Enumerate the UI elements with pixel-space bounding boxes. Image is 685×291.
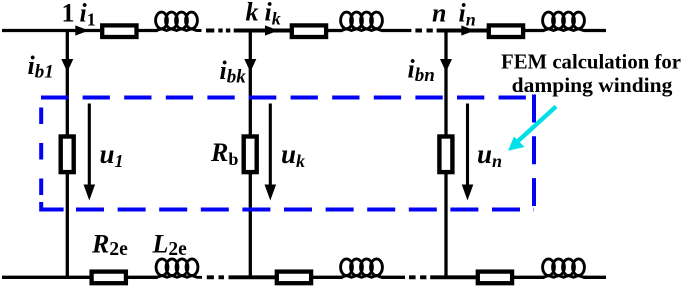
inductor L2e (section k) xyxy=(337,259,387,277)
inductor L2e (section 1) xyxy=(152,259,202,277)
current arrow in xyxy=(461,25,475,35)
current arrow ib1 xyxy=(61,59,73,72)
svg-text:in: in xyxy=(459,0,476,29)
svg-text:un: un xyxy=(477,139,502,171)
inductor L2e (section n) xyxy=(539,259,589,277)
svg-text:ibn: ibn xyxy=(408,55,435,87)
wire after L2e-k xyxy=(382,276,406,279)
voltage arrow un xyxy=(462,104,474,201)
wire R2e to L2e section 1 xyxy=(126,276,158,279)
current arrow ik xyxy=(265,25,279,35)
current arrow ibn xyxy=(440,59,452,72)
wire resistor-k to inductor-k xyxy=(327,29,343,32)
current arrow i1 xyxy=(75,25,89,35)
FEM region dashed box: top edge xyxy=(41,96,533,100)
FEM region dashed box: bottom edge xyxy=(76,208,534,212)
voltage arrow uk xyxy=(265,104,277,201)
bottom bus wire: left segment to R2e xyxy=(2,276,93,279)
wire dots after L2e section 1 (dotted continuation + wire) xyxy=(207,275,278,279)
top bus wire right end xyxy=(584,29,607,32)
svg-text:u1: u1 xyxy=(100,139,124,171)
inductor (branch 1) xyxy=(152,12,202,30)
wire after inductor k xyxy=(382,29,412,32)
svg-text:1: 1 xyxy=(62,0,75,28)
svg-text:Rb: Rb xyxy=(210,138,238,169)
resistor (armature branch 1) xyxy=(102,25,136,37)
svg-text:ik: ik xyxy=(265,0,281,28)
svg-text:uk: uk xyxy=(281,139,305,171)
vertical damper branch wire at node n xyxy=(444,31,447,278)
svg-text:ib1: ib1 xyxy=(28,51,54,83)
wire R2e-n to L2e-n xyxy=(514,276,545,279)
FEM region dashed box: left edge xyxy=(39,108,43,197)
annotation arrow (cyan) pointing into FEM box xyxy=(508,107,556,151)
wire dots before node n (dotted continuation + wire) xyxy=(415,29,489,33)
svg-text:ibk: ibk xyxy=(220,56,247,88)
damper bar resistor (branch 1) xyxy=(61,137,74,173)
svg-text:n: n xyxy=(432,0,446,28)
resistor (armature branch n) xyxy=(489,25,523,37)
svg-text:k: k xyxy=(246,0,259,27)
wire node1-resistor to inductor xyxy=(138,29,158,32)
damper bar resistor (branch n) xyxy=(439,137,452,173)
svg-text:FEM calculation for: FEM calculation for xyxy=(501,50,681,74)
resistor R2e (section k) xyxy=(277,272,311,284)
wire dots before node n bottom (dotted continuation + wire) xyxy=(409,275,479,279)
wire dots after inductor 1 (dotted continuation + wire) xyxy=(206,29,292,33)
bottom bus wire right end xyxy=(584,276,607,279)
resistor (armature branch k) xyxy=(292,25,326,37)
inductor (branch n) xyxy=(539,12,589,30)
svg-text:damping winding: damping winding xyxy=(512,73,673,97)
current arrow ibk xyxy=(244,59,256,72)
inductor (branch k) xyxy=(337,12,387,30)
vertical damper branch wire at node 1 xyxy=(66,31,69,278)
svg-text:L2e: L2e xyxy=(152,230,188,261)
FEM region dashed box: right edge xyxy=(532,95,536,207)
resistor R2e (section n) xyxy=(478,272,512,284)
voltage arrow u1 xyxy=(84,104,96,201)
svg-text:i1: i1 xyxy=(80,0,96,29)
wire resistor-n to inductor-n xyxy=(525,29,545,32)
wire R2e-k to L2e-k xyxy=(312,276,343,279)
resistor R2e (section 1) xyxy=(92,272,126,284)
damper bar resistor Rb (branch k) xyxy=(244,137,257,173)
top bus wire: left segment through node 1 xyxy=(2,29,103,32)
svg-text:R2e: R2e xyxy=(91,230,128,261)
vertical damper branch wire at node k xyxy=(249,31,252,278)
FEM region dashed box: bottom-left corner xyxy=(41,202,63,210)
